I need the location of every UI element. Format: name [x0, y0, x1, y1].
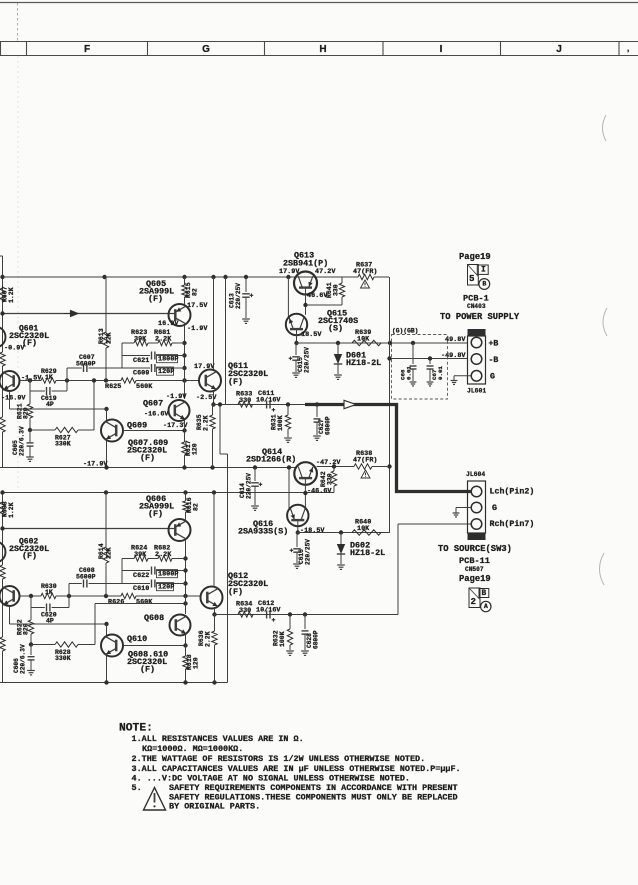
- page ref symbol upper (5/I/B): [468, 265, 479, 286]
- wire x=94 up to base line: [93, 381, 95, 431]
- wire output line y=404.5 thin part: [214, 404, 306, 406]
- wire tail line y=624: [9, 606, 11, 624]
- svg-text:I: I: [481, 266, 486, 275]
- resistor R622: [30, 608, 32, 621]
- svg-text:220/25V: 220/25V: [246, 473, 253, 499]
- wire left column x=2.5 upper: [2, 256, 4, 288]
- svg-text:4. ...V:DC VOLTAGE AT NO SIGNA: 4. ...V:DC VOLTAGE AT NO SIGNAL UNLESS O…: [132, 774, 410, 784]
- svg-text:4P: 4P: [46, 401, 54, 408]
- hollow arrow on output bus: [344, 400, 356, 408]
- capacitor C609: [122, 367, 150, 369]
- cut resistor upper-left b: [0, 417, 5, 432]
- svg-text:1800P: 1800P: [158, 356, 178, 364]
- ground C66: [410, 381, 417, 383]
- svg-text:R613: R613: [98, 328, 105, 344]
- svg-text:-49.8V: -49.8V: [441, 352, 466, 360]
- wire node to R641: [306, 304, 343, 306]
- svg-text:R626: R626: [108, 598, 124, 606]
- wire Q614 base down to node: [304, 479, 306, 508]
- ground C606: [27, 670, 35, 672]
- svg-text:330K: 330K: [55, 441, 71, 448]
- svg-text:220/25V: 220/25V: [305, 539, 312, 565]
- resistor R633: [238, 402, 253, 407]
- resistor R682: [148, 558, 158, 560]
- resistor R615: [184, 277, 186, 285]
- svg-text:C621: C621: [133, 357, 149, 365]
- svg-text:330: 330: [333, 284, 340, 296]
- svg-text:10K: 10K: [357, 335, 370, 343]
- svg-text:560K: 560K: [136, 383, 153, 391]
- svg-text:(G)(GB): (G)(GB): [392, 327, 418, 334]
- transistor Q601: [0, 371, 20, 391]
- svg-text:2.2K: 2.2K: [155, 335, 172, 343]
- wire Q612 collector column x=214: [213, 493, 215, 587]
- svg-text:22K: 22K: [106, 547, 113, 559]
- resistor R631 to ground: [287, 405, 289, 416]
- resistor R607: [0, 288, 5, 302]
- wire Q615 emitter riser from rail: [287, 277, 289, 319]
- svg-text:C610: C610: [133, 585, 149, 593]
- wire Q601 base line y=380.5: [20, 380, 42, 382]
- resistor R616: [185, 493, 187, 502]
- pin Rch: [471, 519, 482, 530]
- capacitor C611 electrolytic: [266, 401, 268, 409]
- svg-text:220/6.3V: 220/6.3V: [20, 644, 27, 674]
- feedback left vertical x=122: [121, 343, 123, 368]
- ground R631: [284, 437, 292, 439]
- resistor R642: [333, 467, 335, 472]
- wire Q609 emitter: [106, 441, 108, 468]
- transistor Q611: [199, 370, 221, 392]
- capacitor C627: [316, 405, 318, 418]
- svg-text:C622: C622: [133, 572, 149, 580]
- svg-text:220/25V: 220/25V: [235, 283, 242, 309]
- wire Q609 collector: [106, 409, 108, 420]
- resistor R608: [0, 502, 5, 516]
- svg-text:3.ALL CAPACITANCES VALUES ARE: 3.ALL CAPACITANCES VALUES ARE IN µF UNLE…: [132, 764, 461, 774]
- resistor R623: [122, 342, 134, 344]
- svg-text:(F): (F): [148, 509, 163, 519]
- resistor R626: [121, 593, 136, 598]
- svg-text:+: +: [259, 482, 263, 489]
- wire output line y=614.5: [215, 614, 399, 616]
- ground C628: [301, 650, 309, 652]
- svg-text:2.THE WATTAGE OF RESISTORS IS: 2.THE WATTAGE OF RESISTORS IS 1/2W UNLES…: [132, 754, 426, 764]
- svg-text:B: B: [482, 590, 487, 598]
- feedback left vertical x=122 lower: [121, 559, 123, 584]
- transistor Q612: [201, 587, 223, 609]
- svg-text:(F): (F): [228, 377, 243, 387]
- resistor R639: [352, 340, 381, 345]
- transistor Q603 (cut at page edge): [0, 327, 6, 348]
- svg-text:+: +: [272, 407, 276, 414]
- svg-text:82: 82: [192, 288, 199, 296]
- dashed box (G)(GB): [392, 335, 448, 400]
- svg-text:CN403: CN403: [467, 303, 486, 310]
- capacitor C613 electrolytic: [245, 277, 247, 292]
- svg-text:220/6.3V: 220/6.3V: [19, 426, 26, 456]
- svg-text:JL601: JL601: [467, 388, 486, 395]
- svg-text:+: +: [250, 293, 254, 300]
- svg-text:,: ,: [627, 44, 629, 53]
- zener diode D601 HZ18-2L: [337, 343, 339, 354]
- transistor Q606 PNP: [169, 519, 191, 541]
- svg-text:G: G: [492, 504, 497, 513]
- ground JL601 G: [451, 380, 458, 382]
- svg-text:2.2K: 2.2K: [203, 415, 210, 431]
- scan artifact arcs right edge: [603, 115, 607, 141]
- svg-text:1.ALL RESISTANCES VALUES ARE I: 1.ALL RESISTANCES VALUES ARE IN Ω.: [132, 734, 304, 744]
- svg-text:TO POWER SUPPLY: TO POWER SUPPLY: [440, 312, 520, 322]
- svg-text:-16.6V: -16.6V: [144, 410, 169, 418]
- transistor Q607: [169, 400, 190, 421]
- wire tail line y=409: [9, 391, 11, 409]
- resistor R637: [342, 276, 358, 278]
- wire Q610 emitter: [106, 656, 108, 683]
- ground C614: [251, 505, 259, 507]
- svg-text:-2.5V: -2.5V: [196, 394, 217, 402]
- capacitor C628: [304, 615, 306, 630]
- wire secondary line y=603.5: [95, 603, 186, 605]
- svg-text:100K: 100K: [279, 631, 286, 647]
- svg-text:(S): (S): [328, 324, 343, 334]
- wire x=95 up to secondary line: [94, 604, 96, 645]
- capacitor C67: [429, 359, 431, 365]
- svg-text:10/16V: 10/16V: [256, 606, 281, 614]
- cut resistor lower-left a: [0, 565, 5, 579]
- resistor R632 to ground: [289, 615, 291, 630]
- cut resistor upper-left a: [0, 352, 5, 366]
- transistor Q613 power PNP: [294, 272, 317, 295]
- wire Q609 base to column: [123, 430, 185, 432]
- svg-text:R625: R625: [105, 383, 121, 391]
- svg-text:Lch(Pin2): Lch(Pin2): [490, 487, 535, 497]
- svg-text:(F): (F): [140, 665, 155, 675]
- wire Q608 emitter + resistor R618: [185, 635, 187, 656]
- svg-text:5: 5: [469, 273, 475, 284]
- wire Q613 base down to node: [305, 288, 307, 315]
- svg-text:Rch(Pin7): Rch(Pin7): [490, 519, 535, 529]
- svg-text:-B: -B: [489, 356, 499, 365]
- wire Q616 base to R640 line: [297, 521, 299, 533]
- svg-text:2: 2: [471, 596, 477, 607]
- wire -B R640 line y=532.5: [297, 532, 390, 534]
- wire Q605 emitter column x=184.5: [184, 326, 186, 400]
- ground C613: [242, 318, 250, 320]
- wire +B 49.8V line y=343: [296, 342, 468, 344]
- svg-text:17.9V: 17.9V: [279, 268, 300, 276]
- lower emitter rail -46.6V y=492.5: [3, 492, 335, 494]
- svg-text:+: +: [272, 617, 276, 624]
- svg-text:49.8V: 49.8V: [445, 336, 466, 344]
- wire Rch return vertical x=398: [397, 524, 399, 615]
- svg-text:(F): (F): [140, 453, 155, 463]
- ground C67: [427, 381, 434, 383]
- svg-text:I: I: [440, 44, 443, 55]
- svg-text:82: 82: [193, 503, 200, 511]
- wire long vertical rail x=390 (277-533): [389, 277, 391, 533]
- svg-text:BY ORIGINAL PARTS.: BY ORIGINAL PARTS.: [169, 801, 260, 811]
- warning triangle R637: [361, 280, 370, 288]
- svg-text:CN507: CN507: [465, 566, 484, 573]
- safety warning triangle: [144, 788, 166, 811]
- svg-text:0.01: 0.01: [437, 366, 444, 380]
- svg-text:(F): (F): [228, 587, 243, 597]
- svg-text:Page19: Page19: [459, 252, 491, 262]
- node dots output line lower: [288, 612, 292, 616]
- value box 120P: [157, 367, 174, 375]
- svg-text:560K: 560K: [136, 598, 153, 606]
- capacitor C66: [412, 343, 414, 364]
- resistor R628: [55, 642, 78, 647]
- svg-text:1K: 1K: [45, 374, 53, 381]
- svg-text:NOTE:: NOTE:: [119, 722, 153, 734]
- svg-text:Q607: Q607: [143, 399, 163, 409]
- svg-text:2SD1266(R): 2SD1266(R): [246, 455, 296, 465]
- capacitor C606 electrolytic: [30, 645, 32, 656]
- svg-text:1.2K: 1.2K: [8, 502, 15, 518]
- svg-text:47(FR): 47(FR): [353, 456, 377, 464]
- svg-text:2.2K: 2.2K: [155, 551, 172, 559]
- svg-text:-16.9V: -16.9V: [1, 394, 26, 402]
- wire Q602 base line y=596: [20, 595, 42, 597]
- svg-text:330: 330: [239, 607, 251, 615]
- warning triangle R638: [361, 470, 370, 478]
- pin -B: [471, 354, 482, 365]
- pin G upper: [471, 371, 482, 382]
- svg-text:-0.9V: -0.9V: [4, 344, 25, 352]
- capacitor C605 electrolytic: [29, 430, 31, 442]
- ground R632: [286, 650, 294, 652]
- node dots output line: [286, 402, 290, 406]
- resistor R640: [352, 530, 381, 535]
- svg-text:JL604: JL604: [466, 471, 485, 478]
- svg-text:330: 330: [327, 473, 334, 485]
- capacitor C614 electrolytic: [254, 468, 256, 482]
- resistor R634: [238, 612, 253, 617]
- connector JL604: [468, 481, 486, 533]
- wire base line to Q612: [136, 595, 201, 597]
- svg-text:0.01: 0.01: [406, 366, 413, 380]
- svg-text:F: F: [84, 44, 90, 55]
- resistor R641: [341, 277, 343, 283]
- capacitor C620: [30, 596, 32, 608]
- wire top rail upper: [3, 276, 343, 278]
- wire Q610 base to column: [123, 645, 186, 647]
- value box 120P lower: [157, 583, 174, 591]
- svg-text:22K: 22K: [106, 332, 113, 344]
- value box 1800P lower: [157, 570, 178, 578]
- wire -49.8V line y=358.5: [390, 358, 468, 360]
- svg-text:G: G: [490, 373, 495, 382]
- capacitor C608: [69, 583, 82, 585]
- resistor R629: [41, 378, 56, 383]
- wire input line with signal arrow: [3, 313, 175, 315]
- wire R636 column: [212, 631, 217, 645]
- resistor R681: [148, 342, 158, 344]
- zener diode D602 HZ18-2L: [340, 533, 342, 545]
- wire Q611 collector column x=213.5: [213, 277, 215, 370]
- value box 1800P: [157, 355, 178, 363]
- wire base line to Q611: [136, 380, 200, 382]
- svg-text:47(FR): 47(FR): [353, 268, 377, 276]
- svg-text:10/16V: 10/16V: [256, 396, 281, 404]
- svg-text:18.5V: 18.5V: [301, 331, 322, 339]
- ground D602: [337, 564, 345, 566]
- resistor R630: [41, 593, 56, 598]
- svg-text:6800P: 6800P: [325, 416, 332, 435]
- capacitor C607: [67, 367, 82, 369]
- resistor R638: [354, 464, 372, 469]
- cut resistor lower-left b: [0, 637, 5, 651]
- pin Lch: [471, 486, 482, 497]
- connector JL601: [468, 329, 486, 336]
- transistor Q615: [286, 314, 307, 335]
- pin G lower: [471, 502, 482, 513]
- transistor Q602: [0, 586, 20, 606]
- capacitor C610: [122, 583, 150, 585]
- resistor R621: [29, 391, 31, 404]
- svg-text:H: H: [319, 44, 326, 55]
- svg-text:2SA933S(S): 2SA933S(S): [238, 527, 288, 537]
- wire left edge entry tick: [0, 255, 3, 257]
- grid header band: [0, 41, 638, 43]
- svg-text:R614: R614: [98, 543, 105, 559]
- resistor R625: [121, 378, 136, 383]
- transistor Q605 PNP: [169, 304, 191, 326]
- bias link column x=220/227.5: [219, 405, 221, 455]
- transistor Q604 (cut at page edge): [0, 542, 6, 563]
- ground C616: [293, 563, 301, 565]
- svg-text:Page19: Page19: [459, 574, 491, 584]
- svg-text:330: 330: [239, 397, 251, 405]
- wire Q612 emitter to output line: [214, 608, 216, 615]
- transistor Q609: [101, 420, 123, 442]
- svg-text:Q609: Q609: [127, 421, 147, 431]
- wire R628 line y=644.5: [29, 642, 33, 646]
- svg-text:5.: 5.: [132, 783, 142, 793]
- svg-text:120: 120: [193, 657, 200, 669]
- svg-text:120P: 120P: [158, 368, 174, 376]
- svg-text:C609: C609: [133, 369, 149, 377]
- svg-text:5600P: 5600P: [76, 574, 96, 581]
- transistor Q610: [101, 635, 123, 657]
- node dot rail/R607: [0, 275, 4, 279]
- svg-text:39K: 39K: [134, 551, 147, 559]
- svg-text:-47.2V: -47.2V: [316, 459, 341, 467]
- thick output bus upper to Lch: [305, 405, 471, 492]
- resistor R635 to lower rail: [212, 405, 214, 416]
- transistor Q616: [287, 505, 308, 526]
- svg-text:(F): (F): [148, 294, 163, 304]
- fold dashed line top-left: [17, 3, 19, 42]
- wire G pin to ground lower: [456, 507, 471, 509]
- svg-text:+: +: [289, 356, 293, 363]
- ground D601: [334, 374, 342, 376]
- capacitor C615 electrolytic: [295, 343, 297, 355]
- svg-text:-17.9V: -17.9V: [83, 460, 108, 468]
- svg-text:A: A: [484, 603, 488, 610]
- svg-text:-1.9V: -1.9V: [187, 325, 208, 333]
- transistor Q608: [170, 615, 191, 636]
- resistor R627: [55, 427, 78, 432]
- ground JL604 G: [453, 512, 460, 514]
- svg-text:39K: 39K: [134, 335, 147, 343]
- wire Q615 base to +B line: [296, 330, 298, 344]
- svg-text:47.2V: 47.2V: [315, 268, 336, 276]
- svg-text:-18.5V: -18.5V: [300, 527, 325, 535]
- node dots on top rail: [102, 275, 106, 279]
- svg-text:Q610: Q610: [127, 634, 147, 644]
- svg-text:J: J: [556, 44, 562, 55]
- page top edge line: [0, 2, 638, 4]
- svg-text:120: 120: [192, 443, 199, 455]
- svg-text:G: G: [202, 44, 210, 55]
- svg-text:6800P: 6800P: [313, 630, 320, 649]
- svg-text:KΩ=1000Ω. MΩ=1000KΩ.: KΩ=1000Ω. MΩ=1000KΩ.: [142, 744, 243, 754]
- svg-text:-46.6V: -46.6V: [307, 488, 332, 496]
- wire Q607 emitter + resistor R617: [184, 421, 186, 443]
- wire Q610 collector: [106, 624, 108, 635]
- svg-text:1800P: 1800P: [158, 571, 178, 579]
- capacitor C612 electrolytic: [266, 611, 268, 619]
- svg-text:1K: 1K: [45, 589, 53, 596]
- svg-text:+: +: [290, 548, 294, 555]
- wire R627 line y=430: [28, 428, 32, 432]
- wire G pin to ground: [454, 375, 471, 377]
- resistor R613 column: [105, 277, 107, 332]
- svg-text:10K: 10K: [357, 525, 370, 533]
- upper bottom rail -17.9V: [0, 467, 296, 469]
- svg-text:B: B: [482, 280, 486, 287]
- capacitor C622: [122, 570, 150, 572]
- page ref symbol lower (2/B/A): [469, 588, 480, 608]
- wire Q616 emitter riser from rail: [288, 468, 290, 510]
- svg-text:120P: 120P: [158, 584, 174, 592]
- pin +B: [471, 337, 482, 348]
- svg-text:5600P: 5600P: [76, 361, 96, 368]
- svg-text:330K: 330K: [55, 655, 71, 662]
- wire left column x=2.5 lower: [2, 493, 4, 503]
- svg-text:2.2K: 2.2K: [205, 631, 212, 647]
- wire x=225.5 bias column: [225, 277, 227, 405]
- transistor Q614 power: [294, 462, 317, 485]
- svg-text:Q608: Q608: [144, 613, 164, 623]
- ground C615: [292, 372, 300, 374]
- signal flow arrow: [64, 311, 78, 317]
- capacitor C616 electrolytic: [296, 533, 298, 548]
- svg-text:17.9V: 17.9V: [194, 363, 215, 371]
- svg-text:220/25V: 220/25V: [304, 347, 311, 373]
- wire lower input line y=528.5: [3, 528, 175, 530]
- svg-text:(F): (F): [22, 551, 37, 561]
- capacitor C621: [122, 355, 150, 357]
- svg-text:PCB-11: PCB-11: [459, 556, 490, 566]
- svg-text:HZ18-2L: HZ18-2L: [346, 358, 381, 368]
- svg-text:+B: +B: [489, 339, 499, 348]
- ground C627: [313, 435, 321, 437]
- svg-text:TO SOURCE(SW3): TO SOURCE(SW3): [438, 544, 512, 554]
- svg-text:HZ18-2L: HZ18-2L: [350, 548, 385, 558]
- wire Q611 emitter to output line: [213, 391, 215, 405]
- resistor R614 column: [105, 493, 107, 548]
- svg-text:100K: 100K: [277, 415, 284, 431]
- svg-text:16.9V: 16.9V: [158, 320, 179, 328]
- svg-text:17.5V: 17.5V: [187, 302, 208, 310]
- wire Q614 collector line to R638: [317, 466, 355, 468]
- svg-text:820: 820: [23, 623, 30, 635]
- ground C605: [26, 456, 34, 458]
